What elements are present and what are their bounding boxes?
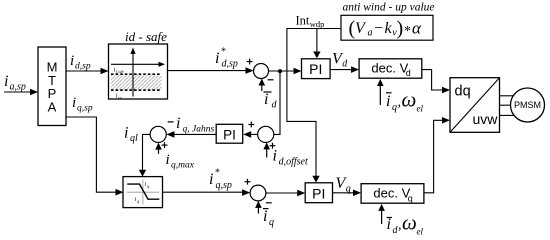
svg-text:d: d xyxy=(272,100,278,111)
wire i_d,sp xyxy=(66,68,109,75)
wire branch to offset adder xyxy=(274,71,280,134)
sign plus adder top-left xyxy=(248,122,254,128)
label V_q xyxy=(336,175,351,194)
svg-text:q,max: q,max xyxy=(171,161,195,171)
wire adder to PI2 xyxy=(243,131,258,138)
svg-text:ω: ω xyxy=(402,211,417,235)
svg-text:i: i xyxy=(386,93,390,110)
anti wind-up wire xyxy=(287,29,341,183)
block PI d-axis xyxy=(302,59,331,79)
wire PI2 to subtractor xyxy=(166,131,216,138)
label i_d bar, omega_el bottom xyxy=(387,211,424,237)
svg-text:dec. V: dec. V xyxy=(371,61,408,76)
svg-text:i: i xyxy=(72,95,76,111)
anti wind-up arrow into PI1 xyxy=(313,29,320,59)
svg-text:a,sp: a,sp xyxy=(10,82,26,93)
block saturation xyxy=(123,177,163,208)
block dec Vd xyxy=(359,59,422,78)
svg-text:i: i xyxy=(264,91,268,108)
wire id-safe to sum1 xyxy=(168,67,254,74)
label i_a,sp xyxy=(4,73,26,93)
sign minus sum1 xyxy=(268,79,274,81)
svg-text:i: i xyxy=(273,148,277,165)
wire dec Vd to dq xyxy=(422,70,450,94)
sign plus adder bottom xyxy=(270,143,276,149)
svg-text:Int: Int xyxy=(296,14,310,28)
svg-text:*: * xyxy=(215,168,220,179)
svg-text:d,offset: d,offset xyxy=(279,157,308,168)
label i*_d,sp xyxy=(215,47,238,70)
wire dec Vq to dq xyxy=(424,117,450,193)
label i_q bar, omega_el xyxy=(386,88,423,114)
sign plus sum1 xyxy=(247,59,253,65)
svg-text:−: − xyxy=(374,20,383,37)
label i_d,offset xyxy=(273,148,308,168)
subtractor circle xyxy=(150,126,166,142)
svg-text:PMSM: PMSM xyxy=(514,100,541,110)
svg-text:i: i xyxy=(176,115,180,132)
wire subtractor to sat xyxy=(139,134,151,176)
svg-text:PI: PI xyxy=(309,61,322,77)
svg-text:i: i xyxy=(215,50,219,67)
block PI Jahns xyxy=(216,124,243,143)
label i_d,sp xyxy=(70,53,91,72)
id-safe label if,wb xyxy=(114,67,125,76)
wire PI1 to dec Vd xyxy=(330,66,359,73)
svg-text:i: i xyxy=(166,152,170,168)
svg-text:,: , xyxy=(398,95,402,110)
block PI q-axis xyxy=(305,183,332,203)
svg-text:uvw: uvw xyxy=(473,111,499,127)
label i_q,sp xyxy=(72,95,93,114)
label i_q bar feedback xyxy=(263,208,274,228)
summing junction sum1 xyxy=(254,64,269,79)
svg-text:q,sp: q,sp xyxy=(77,104,93,114)
arrow i_d,offset xyxy=(263,142,270,157)
motor PMSM xyxy=(511,88,545,122)
three phase lines xyxy=(500,96,514,116)
sign plus sum2 xyxy=(245,179,251,185)
svg-text:q,sp: q,sp xyxy=(216,180,232,191)
svg-text:PI: PI xyxy=(223,127,236,142)
svg-text:el: el xyxy=(417,227,424,237)
svg-text:dec. V: dec. V xyxy=(373,186,410,201)
svg-text:*: * xyxy=(221,47,226,58)
sign minus subtractor xyxy=(168,121,174,123)
label Int_wdp xyxy=(296,14,325,30)
label i_q,Jahns xyxy=(176,115,214,135)
svg-text:,: , xyxy=(398,218,402,233)
feedback arrow i_q xyxy=(255,201,262,214)
adder circle offset xyxy=(258,126,274,142)
id-safe hatch band xyxy=(111,75,162,90)
wire sum1 to PI1 xyxy=(269,68,302,75)
junction dot xyxy=(278,69,282,73)
summing junction sum2 xyxy=(250,185,266,201)
svg-text:i: i xyxy=(209,171,213,188)
svg-text:d,sp: d,sp xyxy=(75,62,91,72)
svg-text:q: q xyxy=(392,102,397,113)
block MTPA xyxy=(38,47,66,126)
id-safe dashed limit lines xyxy=(111,74,162,90)
arrow iq wel into dec Vd xyxy=(377,79,384,105)
label V_d xyxy=(332,50,348,69)
wire sum2 to PI3 xyxy=(266,190,305,197)
svg-text:PI: PI xyxy=(312,185,325,201)
id-safe horizontal axis xyxy=(111,62,165,67)
block dec Vq xyxy=(361,184,424,204)
svg-text:q, Jahns: q, Jahns xyxy=(183,125,215,135)
svg-text:el: el xyxy=(417,104,424,114)
arrow i_q,max xyxy=(155,143,162,154)
arrow id wel into dec Vq xyxy=(378,204,385,224)
svg-text:i: i xyxy=(263,208,267,225)
svg-text:i: i xyxy=(124,125,128,142)
wire sat to sum2 xyxy=(163,189,251,196)
feedback arrow i_d xyxy=(259,79,266,92)
svg-text:d,sp: d,sp xyxy=(222,59,238,70)
block dq/uvw xyxy=(450,78,500,133)
svg-text:wdp: wdp xyxy=(310,19,325,29)
wire input arrow xyxy=(4,89,38,96)
id-safe vertical axis xyxy=(130,48,135,97)
svg-text:d: d xyxy=(406,68,411,78)
svg-text:q: q xyxy=(269,217,274,228)
svg-text:A: A xyxy=(48,99,57,114)
svg-text:dq: dq xyxy=(455,84,471,100)
anti wind-up formula box xyxy=(341,15,433,40)
label i*_q,sp xyxy=(209,168,232,192)
svg-text:id - safe: id - safe xyxy=(125,29,167,44)
sign minus sum2 xyxy=(266,202,272,204)
label i_d bar xyxy=(264,91,278,111)
svg-text:*: * xyxy=(404,24,411,39)
wire PI3 to dec Vq xyxy=(333,190,362,197)
svg-text:α: α xyxy=(412,19,422,38)
svg-text:ω: ω xyxy=(402,88,417,112)
svg-text:i: i xyxy=(387,216,391,233)
svg-text:a: a xyxy=(368,28,373,39)
svg-text:cs: cs xyxy=(118,95,122,100)
label i_ql xyxy=(124,125,138,145)
svg-text:d: d xyxy=(342,59,348,70)
sign plus subtractor xyxy=(162,142,168,148)
svg-text:k: k xyxy=(385,20,393,37)
svg-text:i: i xyxy=(4,73,8,90)
id-safe label ics xyxy=(116,93,122,101)
svg-text:q: q xyxy=(408,194,413,204)
svg-text:ql: ql xyxy=(130,133,138,144)
label i_q,max xyxy=(166,152,195,171)
wire i_q,sp xyxy=(66,117,124,196)
block id-safe xyxy=(109,44,168,99)
svg-text:): ) xyxy=(397,18,404,40)
svg-text:i: i xyxy=(70,53,74,69)
svg-text:anti wind - up value: anti wind - up value xyxy=(343,2,435,14)
